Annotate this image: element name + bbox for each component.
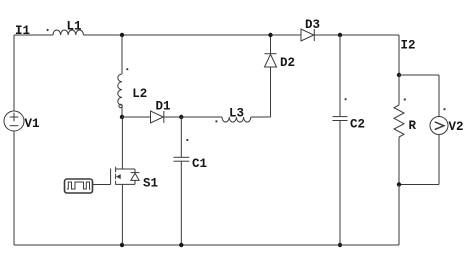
- resistor R: [394, 105, 404, 137]
- svg-text:D2: D2: [280, 56, 295, 70]
- phase dot of L2: [126, 68, 128, 70]
- wire: top rail middle segment: [83, 34, 301, 36]
- diode D2: [265, 54, 277, 67]
- capacitor C1: [174, 157, 190, 161]
- wire: S1 source down to bottom rail: [121, 184, 123, 245]
- node junction R/V2 top: [397, 73, 401, 77]
- diode D1: [151, 111, 164, 123]
- node junction C1/bottom rail: [179, 243, 183, 247]
- capacitor C2: [333, 117, 348, 121]
- wire: V1 bottom to bottom rail: [13, 131, 15, 245]
- wire: top rail left segment: [14, 34, 53, 36]
- inductor L2: [118, 74, 123, 108]
- wire: node across to V2 branch: [399, 75, 439, 117]
- polarity dot of V2: [443, 108, 445, 110]
- wire: node down to resistor R: [398, 75, 400, 105]
- wire: top rail down to C2: [339, 35, 341, 117]
- wire: C1 node down to C1 top plate: [180, 117, 182, 157]
- svg-text:L1: L1: [67, 20, 82, 34]
- node junction at top of L2 branch: [120, 33, 124, 37]
- voltmeter V2: [430, 117, 448, 135]
- wire: S1 drain up to node: [121, 117, 123, 169]
- svg-text:R: R: [409, 119, 417, 133]
- svg-text:D3: D3: [305, 18, 320, 32]
- polarity dot of C1: [186, 139, 188, 141]
- node junction L2/D1/S1: [120, 115, 124, 119]
- svg-text:L3: L3: [229, 107, 244, 121]
- node junction R/V2 bottom: [397, 182, 401, 186]
- svg-text:V1: V1: [25, 117, 40, 131]
- svg-text:I2: I2: [401, 39, 416, 53]
- wire: D1 cathode to C1 node: [164, 116, 182, 118]
- wire: left vertical from top rail to V1 top: [13, 35, 15, 111]
- wire: from top rail down to L2: [121, 35, 123, 74]
- wire: C1 node to L3: [181, 116, 222, 118]
- svg-text:I1: I1: [15, 24, 30, 38]
- wire: junction down to bottom rail: [398, 185, 400, 246]
- wire: bottom rail: [14, 244, 399, 246]
- node junction D2/top rail: [268, 33, 272, 37]
- polarity dot of R: [404, 98, 406, 100]
- node junction D1/C1/L3: [179, 115, 183, 119]
- node junction S1 source/bottom rail: [120, 243, 124, 247]
- svg-text:C1: C1: [192, 157, 207, 171]
- wire: L2 bottom to node: [121, 107, 123, 117]
- wire: L3 right to corner up to D2 anode: [251, 67, 271, 117]
- wire: top rail corner down to R node: [398, 35, 400, 75]
- wire: node to D1 anode: [122, 116, 151, 118]
- wire: top rail right segment: [314, 34, 399, 36]
- svg-text:C2: C2: [350, 118, 365, 132]
- svg-text:S1: S1: [143, 177, 158, 191]
- wire: C2 bottom to bottom rail: [339, 121, 341, 246]
- voltage source V1: [4, 111, 24, 131]
- transistor S1 (MOSFET with body diode): [111, 167, 140, 185]
- inductor L3: [222, 117, 251, 122]
- wire: R bottom to junction: [398, 137, 400, 185]
- wire: D2 cathode up to top rail: [270, 35, 272, 54]
- pulse source gate drive: [65, 179, 93, 193]
- inductor L1: [53, 30, 83, 35]
- svg-text:V2: V2: [449, 120, 464, 134]
- wire: C1 bottom plate to bottom rail: [180, 161, 182, 245]
- diode D3: [301, 29, 314, 41]
- node junction C2/top rail: [338, 33, 342, 37]
- node junction C2/bottom rail: [338, 243, 342, 247]
- wire: V2 bottom down and across to R branch: [399, 135, 439, 185]
- phase dot of L3: [215, 120, 217, 122]
- svg-text:D1: D1: [156, 100, 171, 114]
- wire: pulse source to S1 gate: [93, 184, 111, 186]
- phase dot of L1: [47, 29, 49, 31]
- svg-text:L2: L2: [132, 87, 147, 101]
- polarity dot of C2: [345, 98, 347, 100]
